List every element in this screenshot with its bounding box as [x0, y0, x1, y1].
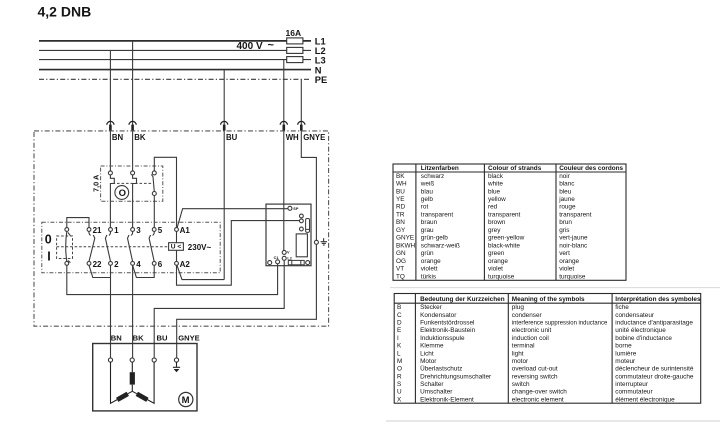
svg-text:D: D	[397, 320, 402, 327]
svg-text:4: 4	[136, 260, 141, 269]
svg-text:schwarz-weiß: schwarz-weiß	[421, 242, 460, 249]
motor terminal box	[93, 344, 197, 411]
svg-text:brown: brown	[488, 219, 506, 226]
wire BU drop from N	[223, 70, 225, 280]
motor terminal BK	[130, 358, 134, 362]
svg-text:K: K	[397, 343, 402, 350]
svg-text:jaune: jaune	[558, 196, 575, 203]
svg-text:fiche: fiche	[615, 304, 629, 311]
svg-text:L: L	[397, 350, 401, 357]
wire main switch to contact 21	[67, 218, 89, 228]
svg-text:weiß: weiß	[420, 181, 435, 188]
svg-text:green: green	[488, 250, 505, 257]
overload trip mech dashed linkage	[113, 182, 153, 184]
svg-text:grün-gelb: grün-gelb	[421, 235, 448, 242]
svg-text:orange: orange	[421, 258, 441, 265]
switch position dashed indicator box	[57, 236, 73, 259]
main switch S (0/I)	[65, 228, 71, 266]
wire contact 4 bridge to 6	[133, 265, 155, 277]
svg-text:Bedeutung der Kurzzeichen: Bedeutung der Kurzzeichen	[420, 296, 505, 303]
fuse F1 16A on L1	[287, 38, 303, 44]
svg-text:BU: BU	[396, 188, 405, 195]
svg-text:Litzenfarben: Litzenfarben	[421, 165, 459, 172]
svg-text:noir: noir	[559, 173, 571, 180]
svg-text:türkis: türkis	[421, 273, 436, 280]
svg-text:U <: U <	[171, 244, 182, 251]
svg-text:schwarz: schwarz	[421, 173, 444, 180]
wire contact 2 to motor BN	[110, 265, 112, 358]
fuse F3 on L3	[287, 57, 303, 63]
svg-text:21: 21	[93, 226, 102, 235]
svg-text:Kondensator: Kondensator	[420, 312, 457, 319]
svg-text:X: X	[397, 396, 402, 403]
svg-text:OG: OG	[396, 258, 406, 265]
overload indicator O	[115, 186, 129, 200]
svg-text:Couleur des cordons: Couleur des cordons	[559, 165, 623, 172]
contact 3/4	[128, 228, 135, 266]
svg-text:R: R	[397, 373, 402, 380]
svg-text:violet: violet	[559, 266, 574, 273]
svg-text:M: M	[397, 358, 402, 365]
unit terminal L2	[282, 256, 292, 260]
unit large component	[296, 234, 307, 257]
svg-text:3: 3	[136, 226, 141, 235]
svg-text:green-yellow: green-yellow	[488, 235, 525, 242]
motor ground symbol	[173, 362, 180, 367]
svg-text:transparent: transparent	[488, 212, 521, 219]
plug connector on BK	[129, 121, 136, 130]
svg-text:M: M	[182, 395, 190, 406]
wire contact 22 bridge to 2	[89, 265, 110, 277]
svg-text:Motor: Motor	[420, 358, 437, 365]
svg-text:electronic element: electronic element	[512, 396, 564, 403]
svg-text:bobine d'inductance: bobine d'inductance	[615, 335, 672, 342]
svg-text:orange: orange	[488, 258, 508, 265]
svg-text:grün: grün	[421, 250, 434, 257]
unit terminal circles	[300, 214, 304, 231]
svg-text:Elektronik-Element: Elektronik-Element	[420, 396, 474, 403]
svg-text:1: 1	[114, 226, 119, 235]
wire L3	[39, 59, 311, 61]
unit mounting hole right	[306, 261, 310, 265]
svg-text:S: S	[397, 381, 401, 388]
unit bottom connector strip	[288, 260, 304, 264]
svg-text:gris: gris	[559, 227, 569, 234]
motor terminal GNYE	[174, 358, 178, 362]
wire A2 to electronic unit	[177, 221, 300, 286]
overload heater element 1 (terminal+bump)	[108, 171, 114, 228]
svg-text:light: light	[512, 350, 524, 357]
svg-text:grau: grau	[421, 227, 434, 234]
svg-text:I: I	[397, 335, 399, 342]
svg-text:Meaning of the symbols: Meaning of the symbols	[512, 296, 585, 303]
enclosure dashed box	[34, 131, 329, 326]
ground symbol (earth) right of unit	[321, 238, 327, 245]
svg-text:L2: L2	[287, 256, 291, 260]
svg-text:élément électronique: élément électronique	[615, 396, 675, 403]
unit terminal SP	[288, 206, 299, 211]
svg-text:BK: BK	[396, 173, 405, 180]
svg-text:vert-jaune: vert-jaune	[559, 235, 588, 242]
svg-text:5: 5	[158, 226, 163, 235]
motor winding W (BU leg)	[132, 362, 154, 403]
svg-text:red: red	[488, 204, 498, 211]
svg-text:BN: BN	[111, 333, 122, 342]
svg-text:Überlastschutz: Überlastschutz	[420, 365, 462, 373]
svg-text:reversing switch: reversing switch	[512, 373, 558, 380]
legend table 1 colour of strands	[393, 164, 626, 280]
wire main switch to unit terminal C1	[67, 264, 278, 295]
svg-text:inductance d'antiparasitage: inductance d'antiparasitage	[615, 320, 693, 327]
wire A1 to SP	[177, 209, 288, 228]
svg-text:déclencheur de surintensité: déclencheur de surintensité	[615, 366, 694, 373]
wire L2	[39, 49, 311, 51]
svg-text:terminal: terminal	[512, 343, 535, 350]
wire A2 to BU (neutral)	[177, 265, 224, 280]
svg-text:Colour of strands: Colour of strands	[488, 165, 542, 172]
wire contact 4 to motor BK	[132, 265, 134, 358]
svg-text:Induktionsspule: Induktionsspule	[420, 335, 465, 342]
PE terminal circle on GNYE	[314, 240, 318, 244]
svg-text:vert: vert	[559, 250, 570, 257]
svg-text:borne: borne	[615, 343, 632, 350]
svg-text:6: 6	[158, 260, 163, 269]
unit terminal V	[282, 250, 290, 254]
svg-text:GN: GN	[396, 250, 406, 257]
svg-text:overload cut-out: overload cut-out	[512, 366, 558, 373]
svg-text:L3: L3	[315, 56, 326, 66]
wire L1	[39, 40, 311, 42]
svg-text:interference suppression induc: interference suppression inductance	[512, 320, 608, 327]
plug connector on GNYE	[298, 121, 305, 130]
svg-text:BN: BN	[112, 133, 124, 142]
motor winding V (BK leg)	[131, 362, 133, 391]
svg-text:violett: violett	[421, 266, 438, 273]
svg-text:BU: BU	[157, 333, 168, 342]
unit small component	[306, 219, 310, 233]
svg-text:Klemme: Klemme	[420, 343, 444, 350]
svg-text:turquoise: turquoise	[559, 273, 586, 280]
svg-text:RD: RD	[396, 204, 406, 211]
svg-text:black: black	[488, 173, 504, 180]
unit mounting hole left	[268, 261, 272, 265]
svg-text:GNYE: GNYE	[396, 235, 414, 242]
svg-text:rot: rot	[421, 204, 429, 211]
scan artifact lines	[390, 287, 720, 289]
unit terminal C1	[274, 256, 280, 264]
svg-text:TR: TR	[396, 212, 405, 219]
svg-text:Stecker: Stecker	[420, 304, 443, 311]
svg-text:braun: braun	[421, 219, 438, 226]
svg-text:PE: PE	[315, 75, 327, 85]
svg-text:22: 22	[93, 260, 102, 269]
svg-text:Licht: Licht	[420, 350, 434, 357]
svg-text:VT: VT	[396, 266, 404, 273]
svg-text:16A: 16A	[286, 28, 302, 38]
wire overload aux to A1	[154, 157, 176, 227]
svg-text:7,0 A: 7,0 A	[91, 174, 100, 192]
svg-text:condensateur: condensateur	[615, 312, 655, 319]
overload aux contact	[151, 171, 156, 228]
svg-text:WH: WH	[396, 181, 407, 188]
wire BK drop from L1	[132, 41, 134, 171]
contact 1/2	[105, 228, 112, 266]
wire BN drop from L2	[109, 50, 111, 171]
wire unit terminal L2 to motor BU	[154, 260, 284, 358]
svg-text:white: white	[487, 181, 503, 188]
svg-text:4,2 DNB: 4,2 DNB	[38, 4, 92, 20]
svg-text:transparent: transparent	[421, 212, 454, 219]
svg-text:switch: switch	[512, 381, 530, 388]
svg-text:Schalter: Schalter	[420, 381, 444, 388]
contact 5/6	[149, 228, 156, 266]
svg-text:TQ: TQ	[396, 273, 405, 280]
svg-text:commutateur droite-gauche: commutateur droite-gauche	[615, 373, 694, 380]
motor terminal BN	[108, 358, 112, 362]
svg-text:blue: blue	[488, 188, 501, 195]
undervoltage coil U< terminals A1 A2	[169, 228, 184, 266]
svg-text:A2: A2	[180, 260, 191, 269]
svg-text:BU: BU	[226, 133, 238, 142]
wire WH drop from L3	[283, 60, 285, 251]
svg-text:interrupteur: interrupteur	[615, 381, 649, 388]
svg-text:moteur: moteur	[615, 358, 636, 365]
svg-text:brun: brun	[559, 219, 572, 226]
wire GNYE drop from PE	[177, 79, 317, 358]
svg-text:B: B	[397, 304, 401, 311]
svg-text:condenser: condenser	[512, 312, 543, 319]
svg-text:2: 2	[114, 260, 119, 269]
svg-text:gelb: gelb	[421, 196, 434, 203]
svg-text:induction coil: induction coil	[512, 335, 549, 342]
svg-text:noir-blanc: noir-blanc	[559, 242, 588, 249]
motor terminal BU	[152, 358, 156, 362]
svg-text:~: ~	[268, 40, 275, 52]
svg-text:L1: L1	[315, 37, 326, 47]
svg-text:change-over switch: change-over switch	[512, 389, 568, 396]
overload heater element 2 (terminal+bump)	[131, 171, 137, 228]
motor symbol M	[179, 392, 193, 406]
svg-text:GNYE: GNYE	[303, 133, 325, 142]
svg-text:YE: YE	[396, 196, 405, 203]
plug connector on BN	[107, 121, 114, 130]
plug connector on WH	[280, 121, 287, 130]
switch mech dashed linkage	[57, 246, 169, 248]
svg-text:blau: blau	[421, 188, 434, 195]
legend table 2 meaning of symbols	[394, 294, 701, 404]
fuse F2 on L2	[287, 47, 303, 53]
overload unit O dashed box	[101, 166, 163, 201]
motor winding U (BN leg)	[111, 362, 133, 403]
svg-text:motor: motor	[512, 358, 529, 365]
svg-text:BK: BK	[134, 133, 146, 142]
svg-text:commutateur: commutateur	[615, 389, 653, 396]
svg-text:transparent: transparent	[559, 212, 592, 219]
svg-text:C: C	[397, 312, 402, 319]
svg-text:O: O	[397, 366, 402, 373]
svg-text:400 V: 400 V	[237, 41, 263, 52]
contact 21/22	[87, 228, 95, 266]
svg-text:GY: GY	[396, 227, 406, 234]
svg-text:Elektronik-Baustein: Elektronik-Baustein	[420, 327, 476, 334]
svg-text:electronic unit: electronic unit	[512, 327, 552, 334]
svg-text:Umschalter: Umschalter	[420, 389, 453, 396]
svg-text:O: O	[119, 188, 126, 199]
svg-text:orange: orange	[559, 258, 579, 265]
switch block dashed box	[42, 222, 220, 272]
svg-text:U: U	[397, 389, 402, 396]
electronic unit E box	[266, 204, 311, 266]
plug connector on BU	[221, 121, 228, 130]
wire PE (dash-dot)	[39, 78, 311, 80]
svg-text:N: N	[315, 65, 322, 75]
svg-text:yellow: yellow	[488, 196, 506, 203]
svg-text:BK: BK	[133, 333, 144, 342]
svg-text:230V~: 230V~	[188, 243, 212, 252]
svg-text:grey: grey	[488, 227, 501, 234]
svg-text:I: I	[47, 249, 50, 263]
svg-text:blanc: blanc	[559, 181, 575, 188]
svg-text:Funkentstördrossel: Funkentstördrossel	[420, 320, 474, 327]
svg-text:SP: SP	[293, 207, 299, 211]
svg-text:C1: C1	[274, 256, 279, 260]
svg-text:violet: violet	[488, 266, 503, 273]
svg-text:lumière: lumière	[615, 350, 636, 357]
svg-text:A1: A1	[180, 226, 191, 235]
svg-text:unité électronique: unité électronique	[615, 327, 666, 334]
svg-text:BKWH: BKWH	[396, 242, 416, 249]
svg-text:0: 0	[45, 233, 52, 247]
svg-text:WH: WH	[286, 133, 299, 142]
svg-text:rouge: rouge	[559, 204, 576, 211]
svg-text:plug: plug	[512, 304, 525, 311]
svg-text:BN: BN	[396, 219, 405, 226]
svg-text:Drehrichtungsumschalter: Drehrichtungsumschalter	[420, 373, 492, 380]
svg-text:bleu: bleu	[559, 188, 572, 195]
svg-text:black-white: black-white	[488, 242, 520, 249]
svg-text:E: E	[397, 327, 401, 334]
svg-text:GNYE: GNYE	[178, 333, 200, 342]
svg-text:Interprétation des symboles: Interprétation des symboles	[615, 296, 701, 303]
svg-text:turquoise: turquoise	[488, 273, 515, 280]
wire N	[39, 69, 311, 71]
svg-text:V: V	[287, 251, 290, 255]
